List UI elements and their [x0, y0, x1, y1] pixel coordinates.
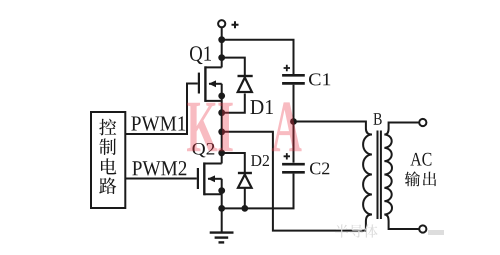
- junction: ground rail / main line: [218, 205, 225, 212]
- watermark I: [218, 103, 232, 152]
- wire: cap midpoint to transformer primary top: [294, 122, 372, 135]
- capacitor C1 (polarized): [282, 65, 305, 84]
- label D2: [251, 155, 269, 166]
- junction: Q1 source: [218, 93, 225, 100]
- junction: Q2 drain: [218, 150, 225, 157]
- junction: D1 anode branch: [218, 109, 225, 116]
- control box (控制电路): [91, 112, 125, 208]
- label: + at supply terminal: [232, 21, 239, 28]
- wire: D2 top branch: [222, 153, 245, 172]
- wire: main vertical lower segment (Q2 source to ground): [221, 179, 223, 233]
- junction: top rail / main line: [218, 36, 225, 43]
- ground: [210, 233, 234, 243]
- junction: half-bridge midpoint: [218, 128, 225, 135]
- wire: PWM2 from control box to Q2 gate: [125, 178, 197, 180]
- label PWM2: [132, 161, 186, 176]
- label PWM1: [131, 116, 185, 130]
- diode D1: [238, 76, 253, 92]
- transistor Q1 (N-MOSFET): [199, 66, 222, 102]
- node: AC output top terminal: [419, 119, 426, 126]
- label B: [374, 113, 382, 125]
- watermark: faint fragment right: [428, 230, 444, 235]
- label D1: [250, 100, 273, 114]
- label 出: [423, 172, 436, 186]
- transformer B primary winding: [363, 135, 372, 215]
- transistor Q2 (N-MOSFET): [198, 162, 222, 195]
- label AC: [410, 153, 431, 166]
- wire: D2 bottom lead: [244, 189, 246, 209]
- node + : positive supply terminal: [218, 20, 225, 27]
- watermark: faint site text bottom: [335, 224, 378, 237]
- label Q2: [193, 143, 215, 157]
- watermark K: [187, 102, 302, 151]
- label 制: [99, 138, 116, 155]
- transformer B core: [377, 131, 379, 220]
- wire: D1 top branch: [222, 58, 245, 75]
- wire: top terminal stem: [221, 27, 223, 67]
- wire: PWM1 from control box to Q1 gate: [125, 84, 198, 135]
- wire: bottom rail to C2: [222, 174, 294, 209]
- junction: D1 cathode branch: [218, 54, 225, 61]
- junction: capacitor midpoint: [290, 118, 297, 125]
- label C1: [309, 73, 330, 85]
- capacitor C2 (polarized): [282, 153, 305, 172]
- junction: D2 anode on bottom rail: [241, 205, 248, 212]
- wire: half-bridge midpoint to transformer primary bottom: [222, 132, 372, 231]
- wire: main vertical mid segment (Q1 source to Q2 drain): [221, 84, 223, 164]
- wire: D1 bottom branch: [222, 94, 245, 113]
- transformer B secondary winding: [384, 135, 392, 215]
- label Q1: [190, 46, 211, 64]
- diode D2: [238, 173, 252, 188]
- label C2: [310, 162, 329, 174]
- node: AC output bottom terminal: [419, 225, 426, 232]
- label 路: [99, 177, 116, 194]
- junction: Q2 source: [218, 187, 225, 194]
- label 输 (AC output text): [405, 171, 420, 186]
- label 控 (control box text): [99, 119, 116, 136]
- wire: secondary bottom lead to AC terminal: [384, 215, 419, 230]
- label 电: [101, 158, 116, 174]
- wire: capacitor midpoint column: [293, 85, 295, 163]
- wire: secondary top lead to AC terminal: [384, 123, 419, 135]
- watermark A: [272, 102, 302, 151]
- wire: top rail to C1: [222, 40, 294, 74]
